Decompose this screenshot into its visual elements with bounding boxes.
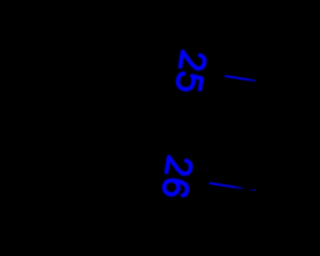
wire to pin 25 [226, 76, 258, 81]
wire segment at right edge (pin 26 net) [250, 190, 257, 191]
wire to pin 26 [210, 183, 242, 188]
pin number 25 [177, 52, 206, 92]
pin number 26 [163, 157, 192, 197]
